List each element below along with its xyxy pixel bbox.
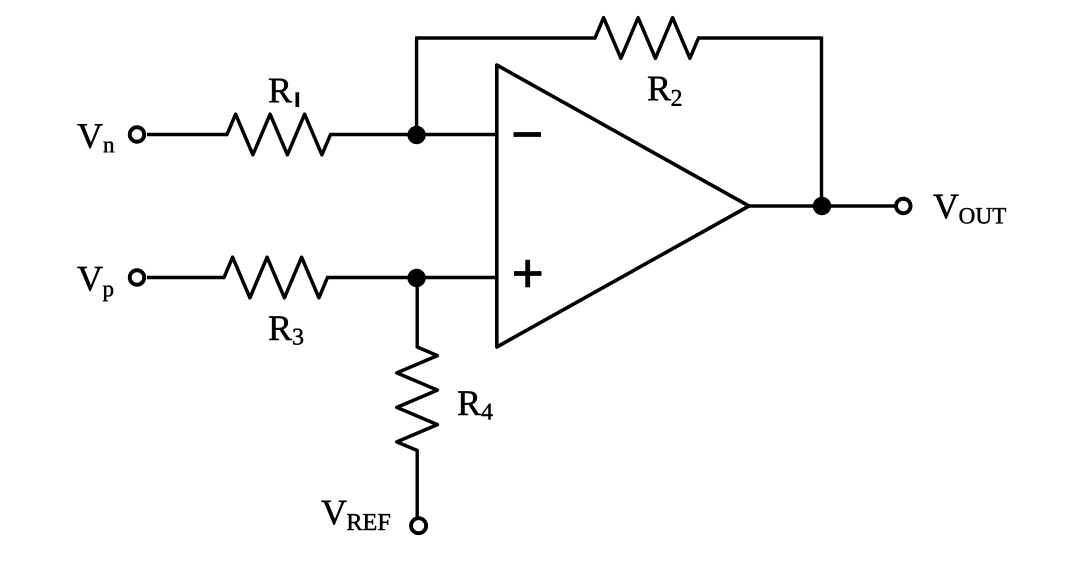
resistor R2 — [595, 18, 699, 59]
label R1 — [269, 79, 299, 107]
wire feedback top right — [699, 36, 822, 39]
wire Vp to R3 — [147, 276, 224, 279]
wire node A up to feedback — [415, 38, 418, 135]
label R4 — [458, 391, 493, 419]
label Vout — [933, 195, 1006, 224]
label Vref — [321, 501, 390, 530]
wire R3 to non-inverting input — [328, 276, 497, 279]
node C (non-inverting input junction) — [407, 269, 425, 287]
label R3 — [269, 316, 303, 344]
op-amp plus pin — [514, 260, 542, 288]
node A (inverting input junction) — [407, 126, 425, 144]
resistor R1 — [227, 114, 331, 155]
terminal Vp — [130, 270, 145, 285]
wire R1 to inverting input — [331, 133, 497, 136]
label Vn — [77, 124, 114, 152]
op-amp U1 — [497, 65, 749, 347]
op-amp minus pin — [514, 132, 542, 137]
resistor R4 — [397, 347, 438, 451]
wire feedback top left — [415, 36, 595, 39]
wire op-amp output — [749, 204, 897, 207]
terminal Vout — [896, 199, 911, 214]
resistor R3 — [224, 257, 328, 298]
label Vp — [77, 267, 113, 301]
wire feedback down to output — [820, 37, 823, 207]
label R2 — [648, 77, 681, 106]
node B (output junction) — [813, 197, 831, 215]
wire node C down to R4 — [416, 278, 419, 347]
terminal Vref — [411, 518, 426, 533]
wire Vn to R1 — [147, 133, 227, 136]
wire R4 to Vref terminal — [416, 451, 419, 518]
terminal Vn — [130, 127, 145, 142]
